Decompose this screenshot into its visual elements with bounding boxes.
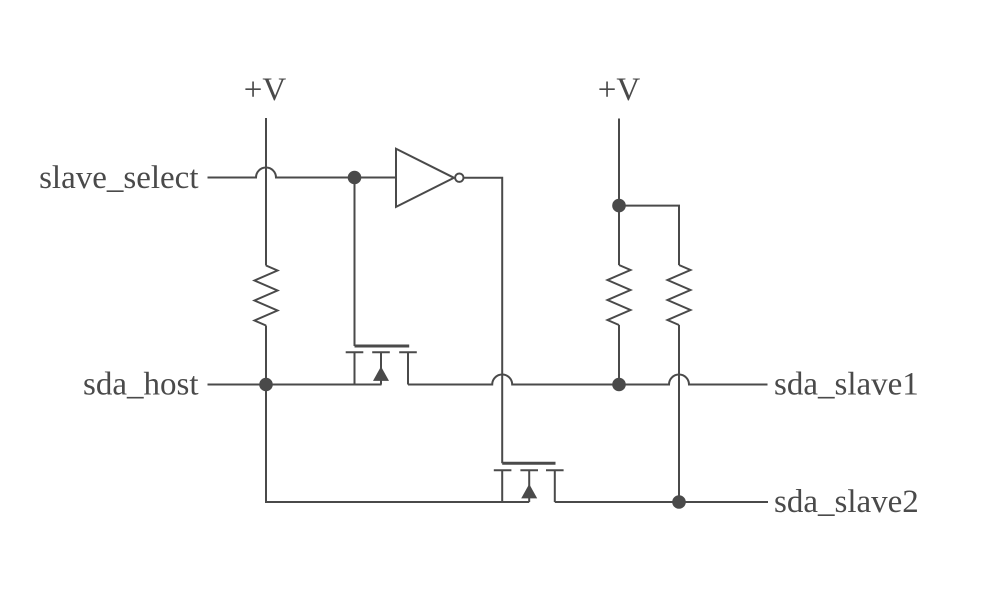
resistor R2 (sda_slave1 pull-up) [608, 265, 631, 325]
svg-text:+V: +V [598, 72, 641, 108]
transistor Q2 channel dashes [494, 469, 564, 471]
transistor Q2 drain lead [554, 470, 556, 502]
transistor Q1 drain lead [407, 352, 409, 384]
inverter U1 triangle [396, 149, 454, 207]
wire R1 bottom to sda_host node [265, 326, 267, 385]
wire sda_host to transistor Q1 source/bulk [208, 384, 382, 386]
wire slave_select to inverter input (hop over +V wire) [208, 168, 397, 178]
transistor Q1 bulk lead [380, 352, 382, 384]
junction sda_slave1 node [612, 378, 626, 392]
transistor Q2 gate bar [502, 462, 555, 465]
resistor R3 (sda_slave2 pull-up) [668, 265, 691, 325]
wire R2 bottom to sda_slave1 node [618, 325, 620, 385]
wire Q1 drain to sda_slave1 (hops over inverter output and R3 leads) [408, 375, 768, 385]
wire sda_host branch down to Q2 source [266, 385, 529, 503]
svg-text:sda_slave2: sda_slave2 [774, 484, 919, 520]
wire Q2 drain to sda_slave2 [555, 501, 768, 503]
wire +V right vertical [618, 119, 620, 206]
wire inverter output to Q2 gate (crosses sda line) [464, 178, 502, 464]
wire +V node branch right to R3 top [619, 206, 679, 265]
junction sda_slave2 node [672, 495, 686, 509]
svg-text:+V: +V [244, 72, 287, 108]
svg-text:sda_host: sda_host [83, 367, 199, 403]
svg-text:slave_select: slave_select [39, 160, 198, 196]
wire +V left vertical [265, 118, 267, 266]
transistor Q1 channel dashes [346, 351, 417, 353]
junction +V right split node [612, 199, 626, 213]
transistor Q2 source lead [501, 470, 503, 502]
wire +V node to R2 top [618, 206, 620, 265]
resistor R1 (left pull-up) [255, 266, 278, 326]
wire R3 bottom to sda_slave2 node (passes over sda_slave1 line) [678, 325, 680, 502]
wire Q1 gate from junction [354, 178, 356, 347]
transistor Q2 bulk lead [528, 470, 530, 502]
junction sda_host node [259, 378, 273, 392]
transistor Q1 bulk arrow [373, 367, 389, 381]
svg-text:sda_slave1: sda_slave1 [774, 367, 919, 403]
junction slave_select / gate node [348, 171, 362, 185]
transistor Q1 source lead [354, 352, 356, 384]
inverter U1 bubble [455, 174, 463, 182]
transistor Q1 gate bar [355, 345, 410, 348]
transistor Q2 bulk arrow [521, 484, 537, 498]
